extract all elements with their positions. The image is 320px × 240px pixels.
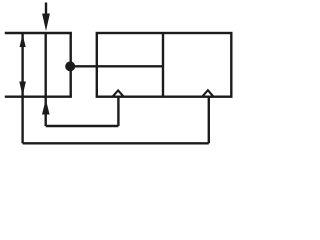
valve body: two-position envelope rectangle <box>97 33 232 97</box>
wire: drop line under left caret <box>117 97 119 126</box>
wire: horizontal line from junction into valve body <box>70 65 163 67</box>
wire: left vertical of bottom return loop <box>21 97 23 144</box>
valve body: divider between positions <box>162 33 164 97</box>
caret: left port marker on bottom edge <box>113 90 124 96</box>
wire: vertical pilot line through left element <box>45 33 47 126</box>
arrow: upward arrowhead on pilot line below element <box>42 99 50 114</box>
wire: right vertical side of left element <box>69 33 71 97</box>
arrow: control input arrow from top <box>42 3 50 32</box>
wire: bottom horizontal line of left element <box>5 95 72 97</box>
caret: right port marker on bottom edge <box>203 90 214 96</box>
junction node: filled dot <box>65 61 75 71</box>
arrow: double-headed vertical arrow (variable stroke indicator) <box>19 34 26 96</box>
wire: horizontal link from pilot line to left caret drop <box>46 125 119 127</box>
wire: drop line under right caret <box>208 97 210 144</box>
wire: long bottom return line <box>23 142 209 144</box>
wire: top horizontal line of left element <box>5 32 72 34</box>
